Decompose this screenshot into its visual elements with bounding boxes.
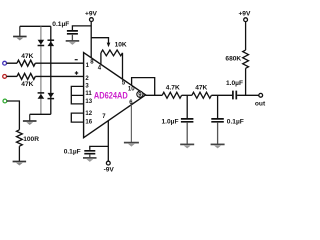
resistor R5 4.7K bbox=[162, 85, 181, 99]
svg-text:0.1µF: 0.1µF bbox=[227, 119, 244, 126]
wire bbox=[107, 121, 109, 162]
node input3 bbox=[3, 99, 7, 103]
svg-text:0.1µF: 0.1µF bbox=[64, 149, 81, 156]
node out bbox=[255, 93, 266, 107]
svg-text:-9V: -9V bbox=[104, 166, 115, 173]
ground bbox=[124, 142, 139, 146]
wire bbox=[211, 94, 232, 96]
wire bbox=[182, 94, 192, 96]
svg-text:0.1µF: 0.1µF bbox=[52, 21, 69, 28]
ground bbox=[83, 155, 97, 162]
svg-text:680K: 680K bbox=[225, 55, 241, 62]
node -9V bbox=[104, 161, 115, 173]
wire bbox=[18, 146, 20, 161]
capacitor C6 1.0uF bbox=[226, 80, 243, 99]
node input2 bbox=[3, 75, 7, 79]
wire bbox=[35, 62, 83, 64]
svg-text:out: out bbox=[255, 101, 266, 108]
wire bbox=[237, 94, 259, 96]
svg-text:+9V: +9V bbox=[238, 11, 251, 18]
wire bbox=[146, 94, 163, 96]
resistor R2 47K bbox=[7, 73, 36, 88]
svg-text:+9V: +9V bbox=[85, 10, 98, 17]
wire bbox=[186, 123, 188, 145]
svg-text:16: 16 bbox=[85, 120, 92, 126]
svg-text:1.0µF: 1.0µF bbox=[162, 119, 179, 126]
svg-text:10: 10 bbox=[128, 87, 135, 93]
node input1 bbox=[3, 61, 7, 65]
diode D2 bbox=[48, 40, 55, 46]
diode D1 bbox=[38, 40, 45, 46]
ground bbox=[13, 161, 27, 165]
wire bbox=[90, 146, 109, 150]
plus sign bbox=[75, 71, 78, 74]
resistor R1 47K bbox=[7, 53, 36, 66]
wire bbox=[7, 101, 20, 130]
op-amp U1 AD624AD bbox=[84, 53, 146, 138]
wire bbox=[50, 26, 52, 114]
svg-text:47K: 47K bbox=[21, 53, 33, 60]
pin 9 bbox=[137, 91, 143, 98]
wire bbox=[217, 95, 219, 118]
wire bbox=[245, 22, 247, 50]
svg-text:1.0µF: 1.0µF bbox=[226, 80, 243, 87]
node +9V bbox=[85, 10, 98, 21]
wire bbox=[91, 38, 108, 43]
minus sign bbox=[75, 59, 78, 61]
diode D4 bbox=[48, 93, 55, 99]
wire bbox=[90, 22, 92, 58]
ground bbox=[13, 26, 27, 40]
wire bbox=[30, 113, 51, 115]
jumper pins 12-16 bbox=[71, 113, 83, 122]
resistor R6 47K bbox=[192, 85, 212, 99]
ground bbox=[66, 35, 80, 45]
svg-text:13: 13 bbox=[85, 99, 92, 105]
ground bbox=[211, 144, 225, 148]
diode D3 bbox=[38, 93, 45, 99]
capacitor C7 1.0uF bbox=[162, 119, 194, 126]
svg-text:11: 11 bbox=[85, 91, 92, 97]
wire bbox=[35, 75, 83, 77]
svg-text:10K: 10K bbox=[115, 41, 127, 48]
resistor R7 680K bbox=[225, 50, 248, 68]
node +9V right bbox=[238, 11, 251, 22]
wire bbox=[20, 25, 51, 27]
wire bbox=[132, 78, 155, 96]
svg-text:100R: 100R bbox=[23, 136, 39, 143]
ground bbox=[180, 144, 194, 148]
potentiometer 10K bbox=[101, 41, 127, 79]
capacitor C1 0.1uF bbox=[67, 31, 78, 34]
svg-text:47K: 47K bbox=[195, 85, 207, 92]
wire bbox=[130, 105, 132, 143]
svg-text:4.7K: 4.7K bbox=[166, 85, 180, 92]
pot wiper arrow bbox=[107, 43, 111, 48]
wire bbox=[186, 95, 188, 118]
resistor R3 100R bbox=[17, 130, 40, 146]
svg-text:47K: 47K bbox=[21, 81, 33, 88]
svg-text:AD624AD: AD624AD bbox=[94, 90, 128, 101]
ground bbox=[23, 114, 37, 125]
wire bbox=[217, 123, 219, 145]
capacitor C8 0.1uF bbox=[211, 119, 244, 126]
wire bbox=[72, 26, 91, 30]
jumper pins 3-11-13 bbox=[71, 86, 83, 104]
svg-text:12: 12 bbox=[85, 111, 92, 117]
capacitor C5 0.1uF bbox=[64, 149, 96, 156]
wire bbox=[40, 26, 42, 114]
wire bbox=[245, 68, 247, 95]
